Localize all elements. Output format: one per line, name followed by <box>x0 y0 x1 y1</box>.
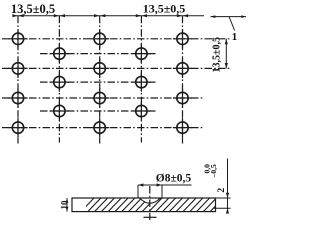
countersink dish recess in section (arc below top edge) <box>140 198 161 203</box>
svg-text:13,5±0,5: 13,5±0,5 <box>11 2 55 16</box>
hole circle H16 (staggered row) with crosshair centerlines <box>132 44 151 63</box>
wire: horizontal dash-dot centerline, hole row A4 <box>2 127 203 129</box>
dimension arrow tick at x=141.4 <box>136 14 147 17</box>
hole circle H9 with crosshair centerlines <box>173 29 192 48</box>
wire: vertical dash-dot centerline, hole column A2 <box>99 16 101 144</box>
hole circle H12 with crosshair centerlines <box>173 118 192 137</box>
hole circle H13 (staggered row) with crosshair centerlines <box>50 44 69 63</box>
svg-text:10: 10 <box>59 200 69 210</box>
hole circle H5 with crosshair centerlines <box>90 29 109 48</box>
dimension line: top horizontal chain dimension <box>14 15 204 17</box>
wire: horizontal dash-dot centerline, staggered hole row B2 <box>40 81 157 83</box>
dimension line: Ø8±0,5 shelf with arrows <box>138 183 192 186</box>
hole circle H7 with crosshair centerlines <box>90 88 109 107</box>
wire: horizontal dash-dot centerline, hole row A2 <box>2 67 232 69</box>
leader line to item number 1 <box>229 17 234 31</box>
wire: horizontal dash-dot centerline, staggered hole row B1 <box>40 53 157 55</box>
dimension line: vertical for thickness 2 with outside arrows <box>226 159 229 214</box>
section bar outline <box>72 198 216 212</box>
hole circle H4 with crosshair centerlines <box>8 118 27 137</box>
wire: vertical dash-dot centerline, hole column A1 <box>17 16 19 144</box>
wire: horizontal dash-dot centerline, staggered hole row B3 <box>40 110 157 112</box>
extension line right edge of hole Ø8 <box>161 185 163 198</box>
svg-text:2: 2 <box>217 188 227 193</box>
hole circle H15 (staggered row) with crosshair centerlines <box>50 101 69 120</box>
wire: vertical dash-dot centerline, staggered hole column B1 <box>58 16 60 143</box>
extension line: 2mm ledge line <box>213 207 231 209</box>
dimension line: vertical 13,5±0,5 between row A1 and row A2 <box>225 39 228 69</box>
dimension line: vertical 10 thickness with arrows <box>66 198 69 212</box>
hole circle H10 with crosshair centerlines <box>173 59 192 78</box>
svg-text:1: 1 <box>232 31 238 43</box>
dimension arrow tick at x=18.0 <box>12 14 23 17</box>
wire: vertical dash-dot centerline, hole column A3 <box>182 16 184 144</box>
dimension arrow tick at x=182.5 <box>177 14 188 17</box>
hole circle H2 with crosshair centerlines <box>8 59 27 78</box>
hole circle H17 (staggered row) with crosshair centerlines <box>132 73 151 92</box>
svg-text:–0,5: –0,5 <box>209 164 218 178</box>
centerline cross dash below section <box>144 216 157 218</box>
dimension arrow tick at x=59.4 <box>54 14 65 17</box>
extension line left edge of hole Ø8 <box>137 185 139 198</box>
svg-text:13,5±0,5: 13,5±0,5 <box>143 2 186 16</box>
extension line: top edge of plate extended right <box>216 197 231 199</box>
svg-text:13,5±0,5: 13,5±0,5 <box>212 37 223 73</box>
dimension arrow tick at x=99.7 <box>94 14 105 17</box>
dimension line: short top-right segment with outward arrows <box>211 15 247 18</box>
hole circle H6 with crosshair centerlines <box>90 59 109 78</box>
wire: horizontal dash-dot centerline, hole row A3 <box>2 97 203 99</box>
hole circle H14 (staggered row) with crosshair centerlines <box>50 73 69 92</box>
hole circle H8 with crosshair centerlines <box>90 118 109 137</box>
wire: vertical dash-dot centerline, staggered hole column B2 <box>140 16 142 143</box>
wire: horizontal dash-dot centerline, hole row A1 <box>2 38 232 40</box>
hole circle H3 with crosshair centerlines <box>8 88 27 107</box>
hole circle H1 with crosshair centerlines <box>8 29 27 48</box>
wire: vertical centerline of sectioned hole <box>149 186 151 220</box>
svg-text:Ø8±0,5: Ø8±0,5 <box>156 172 192 184</box>
hole circle H11 with crosshair centerlines <box>173 88 192 107</box>
hole circle H18 (staggered row) with crosshair centerlines <box>132 101 151 120</box>
